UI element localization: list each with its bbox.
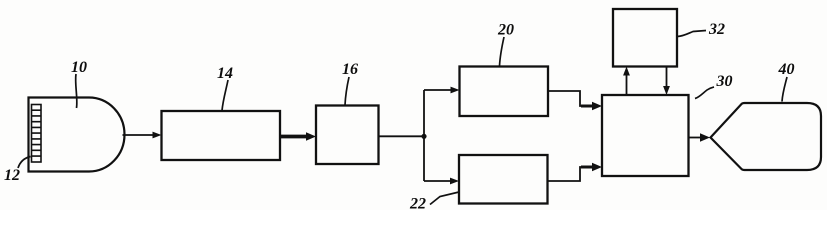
wire arrow node to 22 [424,178,459,185]
box 20 [460,67,549,117]
box 16 [316,106,379,165]
label 40 leader [782,77,787,102]
label 20 leader [500,37,505,66]
svg-text:12: 12 [4,167,20,184]
comb element 12 [32,105,42,163]
svg-text:14: 14 [217,65,233,82]
label 16 leader [345,77,349,105]
label 10 leader [76,74,77,108]
wire arrow node to 20 [424,87,460,94]
wire vertical branch [423,90,425,181]
transducer body 10 (D-shape) [29,98,125,172]
label 32 leader [678,31,707,37]
node junction dot [421,134,426,139]
box 14 [162,111,281,160]
label 14 leader [222,80,228,111]
label 12 leader [18,157,31,169]
svg-text:32: 32 [708,21,725,38]
label 30 leader [695,87,714,99]
box 22 [459,155,548,204]
thick wire arrow 14 to 16 [280,132,316,140]
wire arrow 10 to 14 [123,132,162,139]
wire arrow 30 to 40 [689,133,711,141]
speaker shape 40 [711,103,822,170]
box 32 [613,9,677,67]
svg-text:22: 22 [409,196,426,211]
wire arrow 32 to 30 (down) [663,67,670,96]
svg-text:16: 16 [342,61,358,78]
svg-text:40: 40 [778,61,795,78]
svg-text:20: 20 [497,22,514,39]
wire arrow 22 to 30 [548,163,603,181]
box 30 [602,95,689,176]
wire 16 to node [379,135,425,137]
svg-text:30: 30 [716,73,733,90]
wire arrow 30 to 32 (up) [623,67,630,96]
wire arrow 20 to 30 [548,91,602,110]
svg-text:10: 10 [71,59,87,76]
label 22 leader [430,192,459,205]
